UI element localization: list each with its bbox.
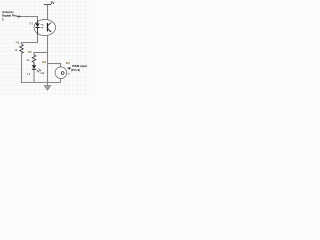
phototransistor inside U1 (47, 23, 49, 31)
net connector arrow (input) (17, 15, 21, 18)
svg-text:M1: M1 (66, 61, 71, 65)
wire: L1 cathode to rail (33, 70, 35, 83)
motor M1 (55, 67, 67, 79)
ground rail (22, 82, 61, 84)
PWM net connector arrow (67, 67, 71, 70)
wire: motor to rail (48, 79, 61, 83)
background (0, 0, 89, 95)
wire: node to rail (main) (47, 53, 49, 83)
resistor R1 (20, 44, 24, 53)
wire: R1 to ground rail (22, 53, 34, 82)
svg-text:1k: 1k (26, 58, 30, 62)
svg-text:U1: U1 (29, 21, 33, 25)
optocoupler U1 (34, 20, 56, 36)
net label: Arduino Digital Pin 2 (2, 10, 17, 21)
LED emission arrows (37, 69, 41, 73)
ground arrow (44, 83, 50, 91)
wire: pin2 to opto LED anode (21, 17, 38, 21)
5V power flag (44, 1, 55, 5)
svg-text:R2: R2 (28, 50, 32, 54)
resistor R2 (32, 55, 36, 62)
svg-text:red: red (40, 71, 44, 75)
LED L1 (32, 62, 41, 72)
svg-text:Digital Pin: Digital Pin (2, 13, 17, 17)
svg-text:fan: fan (67, 72, 71, 76)
net label: PWM input / (Pin 9) (71, 64, 87, 72)
svg-text:L1: L1 (27, 72, 31, 76)
light arrows (41, 24, 44, 28)
wire: branch right to motor (48, 64, 61, 68)
LED inside U1 (37, 20, 39, 23)
svg-text:(Pin 9): (Pin 9) (71, 68, 80, 72)
svg-text:M1: M1 (42, 60, 47, 64)
wire: 5V to opto collector (47, 5, 49, 20)
svg-text:R1: R1 (16, 41, 20, 45)
wire: emitter node branch to R2 (34, 53, 48, 56)
svg-text:1k: 1k (14, 48, 18, 52)
wire: LED cathode to R1 (22, 35, 38, 44)
wire: opto emitter down (47, 35, 49, 52)
